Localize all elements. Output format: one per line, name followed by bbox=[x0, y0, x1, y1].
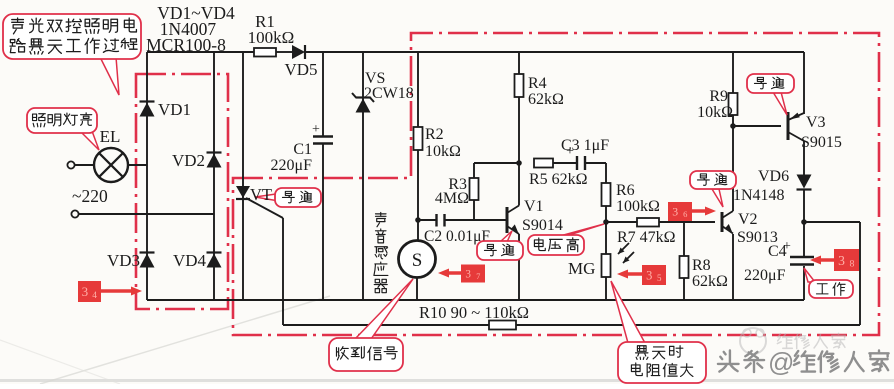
svg-text:8: 8 bbox=[850, 259, 855, 270]
svg-text:R10 90 ~ 110kΩ: R10 90 ~ 110kΩ bbox=[419, 303, 529, 322]
svg-text:VD5: VD5 bbox=[284, 60, 317, 79]
svg-text:10kΩ: 10kΩ bbox=[425, 143, 461, 160]
svg-text:3: 3 bbox=[672, 206, 678, 219]
svg-text:220μF: 220μF bbox=[271, 157, 313, 174]
svg-text:R8: R8 bbox=[692, 257, 711, 274]
svg-text:MCR100-8: MCR100-8 bbox=[146, 35, 226, 55]
svg-text:VT: VT bbox=[250, 185, 272, 204]
svg-text:S: S bbox=[412, 250, 423, 271]
svg-text:VD4: VD4 bbox=[173, 251, 207, 270]
svg-text:100kΩ: 100kΩ bbox=[616, 198, 660, 215]
svg-text:+: + bbox=[312, 122, 320, 137]
svg-text:3: 3 bbox=[82, 284, 89, 299]
svg-text:V3: V3 bbox=[806, 114, 826, 131]
svg-text:EL: EL bbox=[100, 127, 121, 146]
svg-text:3: 3 bbox=[646, 268, 652, 282]
svg-text:~220: ~220 bbox=[72, 186, 108, 206]
svg-text:R9: R9 bbox=[709, 88, 728, 105]
svg-text:@: @ bbox=[768, 347, 794, 377]
svg-text:C3 1μF: C3 1μF bbox=[561, 137, 609, 154]
svg-text:C1: C1 bbox=[293, 141, 312, 158]
svg-text:10kΩ: 10kΩ bbox=[697, 104, 733, 121]
svg-text:1N4148: 1N4148 bbox=[733, 187, 785, 204]
svg-text:S9015: S9015 bbox=[801, 134, 842, 151]
svg-text:V1: V1 bbox=[524, 198, 544, 215]
svg-text:S9014: S9014 bbox=[522, 217, 563, 234]
svg-text:5: 5 bbox=[657, 273, 662, 283]
svg-text:VD6: VD6 bbox=[758, 168, 789, 185]
svg-text:VD1: VD1 bbox=[158, 100, 191, 119]
svg-text:R6: R6 bbox=[616, 182, 635, 199]
svg-text:2CW18: 2CW18 bbox=[364, 85, 414, 102]
svg-text:100kΩ: 100kΩ bbox=[248, 28, 295, 47]
svg-text:62kΩ: 62kΩ bbox=[528, 91, 564, 108]
svg-text:V2: V2 bbox=[738, 211, 758, 228]
svg-text:VD3: VD3 bbox=[107, 251, 140, 270]
svg-text:R4: R4 bbox=[528, 75, 547, 92]
svg-text:220μF: 220μF bbox=[744, 267, 786, 284]
svg-text:7: 7 bbox=[476, 272, 480, 281]
svg-text:+: + bbox=[783, 239, 791, 254]
svg-text:R7 47kΩ: R7 47kΩ bbox=[617, 229, 676, 246]
svg-text:R5 62kΩ: R5 62kΩ bbox=[529, 171, 588, 188]
svg-text:3: 3 bbox=[465, 268, 471, 280]
svg-text:VD2: VD2 bbox=[172, 151, 205, 170]
svg-text:4MΩ: 4MΩ bbox=[435, 190, 469, 207]
svg-text:3: 3 bbox=[838, 253, 845, 268]
svg-text:4: 4 bbox=[92, 291, 97, 301]
svg-text:62kΩ: 62kΩ bbox=[692, 273, 728, 290]
svg-text:MG: MG bbox=[568, 259, 595, 278]
svg-text:R2: R2 bbox=[425, 126, 444, 143]
svg-text:6: 6 bbox=[683, 209, 688, 219]
